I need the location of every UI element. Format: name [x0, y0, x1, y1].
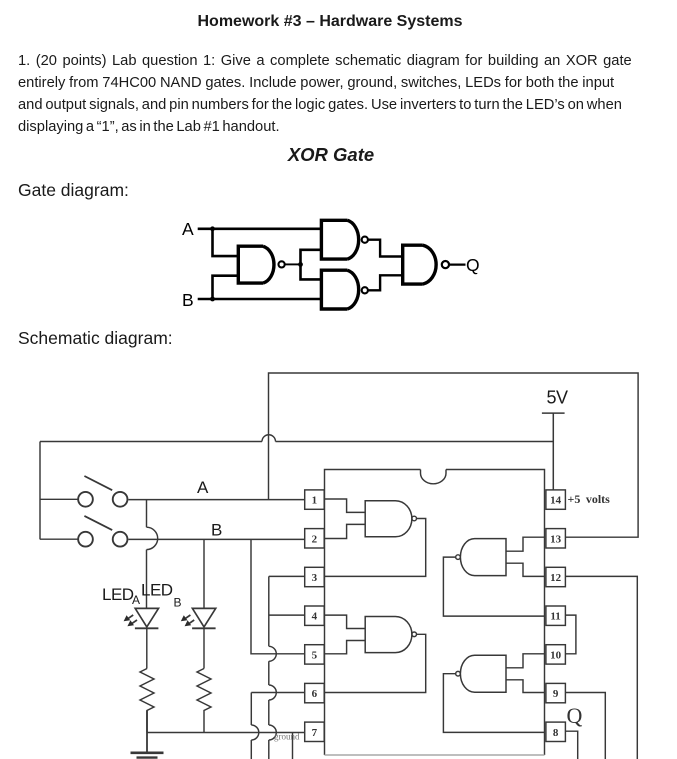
nand gate G2 [321, 220, 368, 259]
title [0, 13, 660, 31]
svg-text:6: 6 [312, 688, 318, 700]
pin 11 box [546, 606, 566, 625]
paragraph [18, 50, 673, 138]
svg-text:7: 7 [312, 727, 318, 739]
wire ground stub down [292, 733, 294, 759]
pin 8 box [546, 722, 566, 741]
Gate diagram heading [18, 180, 129, 201]
node B label [211, 521, 222, 540]
node Q label [567, 703, 583, 728]
wire pin8 Q down [565, 731, 577, 759]
svg-text:Q: Q [466, 255, 480, 275]
XOR Gate heading [0, 144, 662, 166]
pin 10 box [546, 645, 566, 664]
wire pin12 down right side [565, 576, 637, 759]
node A junction [210, 226, 215, 231]
svg-text:11: 11 [550, 611, 560, 623]
pin 2 box [305, 529, 325, 548]
svg-text:3: 3 [312, 572, 318, 584]
wire Q output [449, 263, 466, 265]
wire B branch to pin5 [251, 539, 305, 653]
label LED B [141, 581, 182, 610]
switch SW-A [40, 476, 127, 507]
node A label [197, 478, 209, 497]
IC 74HC00 body [325, 470, 545, 756]
pin 4 box [305, 606, 325, 625]
svg-text:5: 5 [312, 649, 318, 661]
wire G1out to G2 [301, 250, 322, 265]
pin 12 box [546, 567, 566, 586]
svg-text:13: 13 [550, 533, 562, 545]
nand gate G1 [238, 246, 284, 283]
node A label [182, 219, 194, 239]
svg-text:9: 9 [553, 688, 559, 700]
wire B to gate1 [213, 276, 239, 299]
svg-text:B: B [211, 521, 222, 540]
svg-text:B: B [182, 290, 194, 310]
wire B line to pin2 [128, 538, 304, 540]
svg-text:4: 4 [312, 611, 318, 623]
wire pin3 to pin4 and down with hops [269, 576, 325, 759]
wire A line to pin1 [128, 499, 304, 501]
label ground [274, 732, 300, 742]
svg-text:A: A [132, 593, 140, 607]
svg-text:8: 8 [553, 727, 559, 739]
svg-text:A: A [197, 478, 209, 497]
wire G3 output [368, 275, 403, 290]
pin 6 box [305, 683, 325, 702]
switch SW-B [40, 516, 127, 547]
LED A [135, 608, 159, 668]
resistor R-B [197, 669, 211, 733]
wire LED-B anode [203, 539, 205, 608]
wire A input [198, 228, 322, 231]
svg-text:B: B [174, 596, 182, 610]
wire rail to switches [39, 442, 41, 540]
resistor R-A [140, 669, 154, 733]
svg-text:1: 1 [312, 495, 318, 507]
svg-text:LED: LED [102, 585, 134, 604]
wire A net to pin13 loop [269, 373, 639, 537]
wire B input [198, 298, 322, 301]
pin 5 box [305, 645, 325, 664]
node G1 out junction [298, 262, 303, 267]
pin 13 box [546, 529, 566, 548]
wire G1 output [285, 263, 300, 265]
svg-text:2: 2 [312, 533, 318, 545]
node Q label [466, 255, 480, 275]
ground symbol [131, 711, 164, 758]
svg-text:ground: ground [274, 732, 300, 742]
node B junction [210, 297, 215, 302]
wire pin11 to pin10 [565, 615, 576, 654]
power rail 5V feed with hop [40, 435, 553, 442]
ground rail [147, 732, 305, 734]
node B label [182, 290, 194, 310]
svg-text:10: 10 [550, 649, 562, 661]
pin 3 box [305, 567, 325, 586]
svg-text:14: 14 [550, 495, 562, 507]
svg-text:12: 12 [550, 572, 562, 584]
wire A to gate1 [213, 229, 239, 256]
pin 14 box [546, 490, 566, 509]
wire pin6 down with hop [251, 693, 304, 759]
power 5V symbol [542, 388, 568, 490]
wire pin9 down [565, 693, 605, 759]
nand gate U1C inside IC [443, 654, 544, 733]
svg-text:5V: 5V [547, 388, 569, 408]
wire G2 output [368, 240, 403, 257]
LED B [192, 608, 216, 668]
pin 1 box [305, 490, 325, 509]
wire pin4 stub [269, 614, 305, 616]
pin 9 box [546, 683, 566, 702]
label LED A [102, 585, 140, 607]
svg-text:LED: LED [141, 581, 173, 600]
nand gate G4 [403, 245, 449, 284]
nand gate U1D inside IC [443, 537, 544, 616]
pin 7 box [305, 722, 325, 741]
wire G1out to G3 [301, 264, 322, 279]
nand gate U1A inside IC [324, 499, 426, 576]
svg-text:A: A [182, 219, 194, 239]
label +5 volts [568, 492, 611, 506]
LED B light arrows [181, 615, 194, 626]
svg-text:+5 volts: +5 volts [568, 492, 611, 506]
nand gate G3 [321, 270, 368, 309]
nand gate U1B inside IC [324, 615, 426, 692]
svg-text:Q: Q [567, 703, 583, 728]
LED A light arrows [124, 615, 137, 626]
wire LED-A anode with hop over B line [147, 500, 158, 609]
Schematic diagram heading [18, 328, 173, 349]
